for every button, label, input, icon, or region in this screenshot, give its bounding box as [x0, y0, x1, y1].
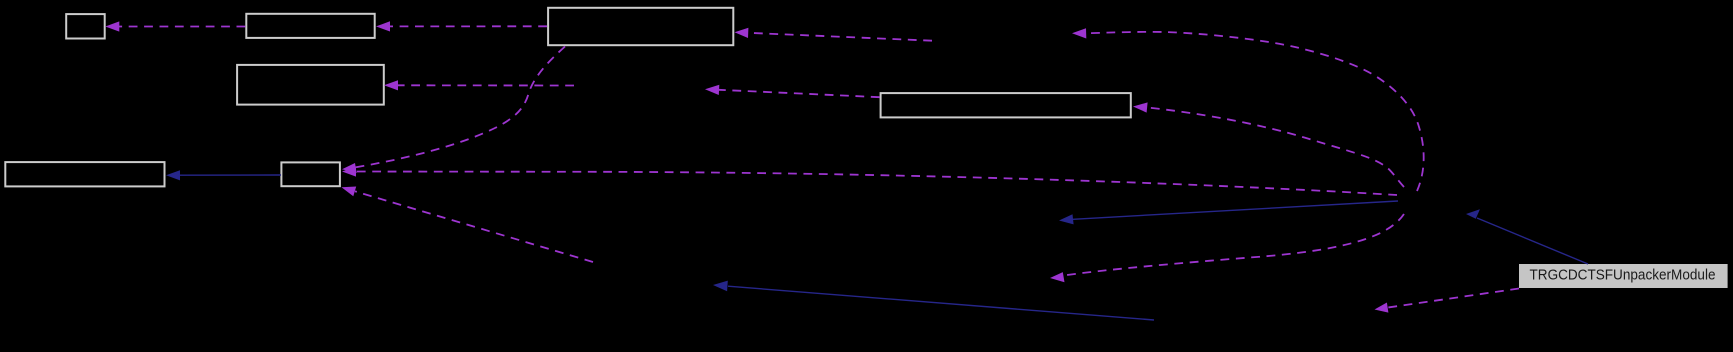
- node box1: [66, 14, 105, 38]
- edge hidden node B to box7 (dashed diagonal): [342, 187, 594, 263]
- edge box3 to box7 (dashed curve): [342, 47, 565, 174]
- edge hidden node C to box3 (dashed): [735, 28, 933, 41]
- edge hidden node A to hidden node H (blue solid): [1059, 201, 1398, 224]
- edge hidden node G to hidden node B (blue solid): [713, 281, 1154, 320]
- edge box2 to box1 (dashed): [105, 21, 245, 31]
- edge hidden node A to hidden node F (dashed curve, bottom): [1050, 214, 1404, 282]
- edge box7 to box6 (blue solid): [166, 170, 281, 180]
- edge box3 to box2 (dashed): [376, 21, 547, 31]
- node box5: [881, 93, 1131, 117]
- svg-text:TRGCDCTSFUnpackerModule: TRGCDCTSFUnpackerModule: [1530, 267, 1716, 284]
- node TRGCDCTSFUnpackerModule: [1519, 264, 1728, 288]
- edge hidden node A to box5 (dashed curve): [1133, 102, 1404, 187]
- edge TRGCDCTSFUnpackerModule to hidden node I (dashed, bottom right): [1375, 289, 1520, 313]
- node box3: [548, 8, 733, 45]
- edge box5 to hidden node E (dashed): [705, 85, 880, 97]
- edge hidden node A to hidden node C (long dashed curve, top right): [1072, 28, 1424, 191]
- edge TRGCDCTSFUnpackerModule to hidden node A (blue solid): [1466, 209, 1588, 264]
- node box2: [246, 14, 374, 38]
- node box4: [237, 65, 384, 105]
- edge hidden node A to box7 (long horizontal dashed): [342, 166, 1397, 195]
- node box6: [5, 162, 164, 186]
- edge hidden node E to box4 (dashed): [384, 80, 574, 90]
- node box7: [281, 162, 340, 186]
